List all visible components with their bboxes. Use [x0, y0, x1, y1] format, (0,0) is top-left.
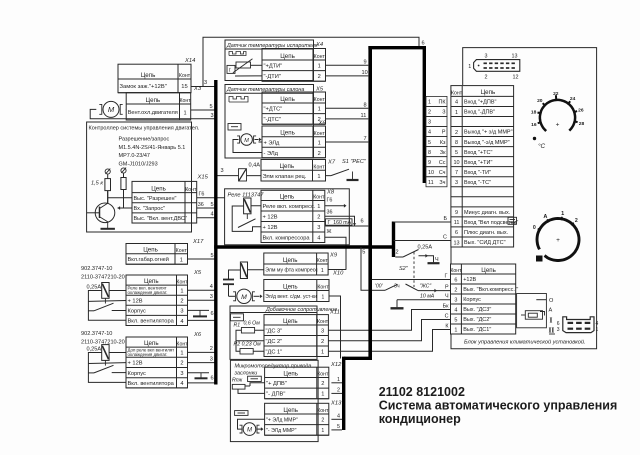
svg-text:Г: Г	[445, 273, 448, 279]
svg-text:Вход "-ДПВ": Вход "-ДПВ"	[464, 110, 495, 116]
svg-text:Вкл. вентилятора: Вкл. вентилятора	[128, 381, 175, 387]
svg-text:24: 24	[570, 96, 576, 102]
harness bundle middle vertical	[368, 46, 372, 360]
svg-text:Конт: Конт	[317, 408, 329, 414]
svg-text:X5: X5	[193, 270, 202, 276]
svg-text:Конт: Конт	[179, 73, 191, 79]
svg-text:X10: X10	[332, 271, 344, 277]
svg-text:охлаждения двигат.: охлаждения двигат.	[128, 352, 168, 357]
svg-text:0: 0	[533, 225, 536, 231]
svg-text:"- ДПВ": "- ДПВ"	[266, 392, 285, 398]
motor M1 вентилятор охлаждения двигателя	[103, 101, 119, 117]
svg-text:3: 3	[180, 309, 183, 315]
svg-text:1: 1	[454, 327, 457, 333]
wire Бк ДС3 to control unit	[328, 310, 450, 331]
svg-text:Цепь: Цепь	[283, 370, 298, 377]
svg-text:3: 3	[180, 371, 183, 377]
svg-text:"+ ЭЛд ММР": "+ ЭЛд ММР"	[266, 418, 298, 424]
svg-text:6: 6	[454, 277, 457, 283]
svg-text:21102 8121002: 21102 8121002	[379, 385, 465, 399]
svg-text:"ДС 1": "ДС 1"	[266, 349, 283, 355]
svg-text:°С: °С	[538, 142, 546, 150]
svg-text:22: 22	[553, 91, 559, 97]
svg-text:36: 36	[327, 209, 333, 215]
svg-text:Цепь: Цепь	[280, 96, 295, 103]
svg-text:1: 1	[318, 64, 321, 70]
svg-text:М: М	[244, 138, 249, 144]
svg-text:Выход "-э/д ММР": Выход "-э/д ММР"	[464, 140, 510, 146]
svg-text:1: 1	[321, 350, 324, 356]
svg-text:1: 1	[318, 140, 321, 146]
wire 5 X13 pin1 to harness	[331, 429, 342, 431]
svg-text:Зк: Зк	[440, 150, 446, 156]
svg-text:6: 6	[211, 376, 214, 382]
svg-text:ПК: ПК	[438, 100, 446, 106]
motor M4 микромоторедуктор	[243, 423, 256, 436]
wire С to Вых СИД ДТС	[394, 240, 451, 242]
svg-text:1: 1	[468, 64, 471, 70]
svg-text:Конт: Конт	[314, 131, 326, 137]
svg-text:0,25А: 0,25А	[418, 245, 433, 251]
svg-text:0,6 Ом: 0,6 Ом	[244, 321, 261, 327]
svg-text:9: 9	[455, 210, 458, 216]
svg-text:Конт: Конт	[185, 187, 197, 193]
svg-text:1: 1	[318, 107, 321, 113]
svg-text:2: 2	[485, 75, 488, 81]
variable-output symbol over R2	[121, 168, 126, 173]
svg-text:Разрешение/запрос: Разрешение/запрос	[119, 136, 170, 142]
svg-text:11: 11	[454, 220, 460, 226]
svg-text:7: 7	[455, 170, 458, 176]
wire С ДС2 to control unit	[328, 320, 450, 341]
svg-text:2: 2	[396, 250, 399, 256]
svg-text:Конт: Конт	[176, 279, 188, 285]
svg-text:Бк: Бк	[443, 303, 450, 309]
svg-text:Цепь: Цепь	[283, 407, 298, 414]
resistor R2 in ECU	[121, 178, 126, 190]
svg-text:2: 2	[321, 339, 324, 345]
svg-text:2: 2	[455, 130, 458, 136]
svg-text:13: 13	[453, 240, 459, 246]
svg-text:Цепь: Цепь	[481, 89, 496, 96]
svg-text:3: 3	[317, 225, 320, 231]
svg-text:3: 3	[204, 80, 207, 86]
wire motor M4 to X13	[258, 428, 262, 430]
svg-text:1: 1	[455, 110, 458, 116]
svg-text:Конт: Конт	[176, 248, 188, 254]
svg-text:2: 2	[318, 151, 321, 157]
svg-text:Вх. "Запрос": Вх. "Запрос"	[134, 206, 166, 212]
svg-text:Цепь: Цепь	[283, 283, 298, 290]
svg-text:Цепь: Цепь	[151, 185, 166, 192]
svg-text:Вход "-ТС": Вход "-ТС"	[464, 180, 491, 186]
svg-text:Цепь: Цепь	[280, 193, 295, 200]
temperature dial	[540, 100, 575, 131]
svg-text:7: 7	[364, 136, 367, 142]
ground of transistor emitter	[107, 227, 109, 229]
blower resistor icon in unit	[525, 311, 542, 320]
svg-text:16: 16	[531, 122, 537, 128]
svg-text:9: 9	[428, 160, 431, 166]
svg-text:4: 4	[211, 212, 214, 218]
svg-text:X13: X13	[330, 401, 342, 407]
svg-text:Цепь: Цепь	[283, 257, 298, 264]
svg-text:Микромоторедуктор привода: Микромоторедуктор привода	[235, 363, 312, 369]
harness bus horizontal (circuit 30)	[214, 245, 393, 248]
harness lower jog	[344, 357, 372, 360]
svg-text:Корпус: Корпус	[128, 371, 146, 377]
svg-text:1: 1	[321, 392, 324, 398]
svg-text:11: 11	[361, 113, 367, 119]
thermistor ДТИ symbol	[236, 62, 251, 68]
wire 7 X6 pin1 to harness	[326, 141, 369, 143]
svg-text:Вых. "ДС3": Вых. "ДС3"	[463, 307, 491, 313]
blower resistor icon	[231, 314, 244, 321]
svg-text:902.3747-10: 902.3747-10	[81, 331, 112, 337]
ground of X5 Корпус	[188, 309, 210, 311]
svg-text:3: 3	[557, 327, 560, 333]
svg-text:4: 4	[428, 130, 431, 136]
harness top horizontal	[368, 46, 426, 49]
svg-text:Реле вкл. компресс.: Реле вкл. компресс.	[263, 204, 316, 210]
wire sensor to X12	[245, 385, 250, 387]
svg-text:1: 1	[596, 327, 599, 333]
svg-text:Ж: Ж	[327, 229, 332, 235]
svg-text:"ДС 2": "ДС 2"	[266, 339, 283, 345]
svg-text:X8: X8	[326, 190, 335, 196]
svg-text:4: 4	[454, 307, 457, 313]
svg-text:1: 1	[321, 268, 324, 274]
fan positions box	[517, 294, 547, 328]
svg-text:Конт: Конт	[317, 372, 329, 378]
svg-text:4: 4	[180, 381, 183, 387]
svg-text:4: 4	[210, 284, 213, 290]
svg-text:"+ДТС": "+ДТС"	[264, 107, 283, 113]
svg-text:- ЭЛд: - ЭЛд	[264, 151, 279, 157]
svg-text:0,25А: 0,25А	[87, 285, 102, 291]
wire Г6 from X15 to relay 1113747	[197, 197, 225, 199]
svg-text:Замок заж."+12В": Замок заж."+12В"	[120, 84, 167, 90]
wire 10 X4 pin2 to harness	[326, 75, 369, 77]
svg-text:Конт: Конт	[180, 98, 192, 104]
svg-text:Р: Р	[442, 130, 446, 136]
ground of X6 Корпус	[188, 372, 210, 374]
svg-text:Цепь: Цепь	[146, 97, 161, 104]
svg-text:X12: X12	[330, 362, 342, 368]
svg-text:+: +	[556, 237, 560, 244]
relay K3 wiring	[232, 206, 252, 231]
svg-text:Зч: Зч	[439, 180, 445, 186]
svg-text:2: 2	[454, 287, 457, 293]
svg-text:+ 12В: + 12В	[263, 225, 278, 231]
svg-text:6: 6	[211, 311, 214, 317]
wire 5 from X17 to harness	[188, 258, 215, 260]
svg-text:3: 3	[210, 294, 213, 300]
salon sensor plug icon	[229, 97, 248, 103]
svg-text:Цепь: Цепь	[283, 318, 298, 325]
svg-text:1: 1	[317, 204, 320, 210]
control unit table 2	[451, 264, 516, 334]
svg-text:4: 4	[337, 413, 340, 419]
svg-text:10: 10	[428, 170, 434, 176]
relay K1 wiring	[109, 290, 126, 292]
wire X3 pin1 to harness	[191, 109, 215, 111]
svg-text:"- ЭЛд ММР": "- ЭЛд ММР"	[266, 428, 297, 434]
svg-text:Конт: Конт	[314, 97, 326, 103]
svg-text:Вых. "ДС1": Вых. "ДС1"	[463, 327, 491, 333]
svg-text:3: 3	[210, 356, 213, 362]
svg-text:GM-J1010/J293: GM-J1010/J293	[119, 161, 158, 167]
wire Ж X8 pin4 to compressor clutch	[325, 237, 346, 269]
svg-text:Конт: Конт	[313, 165, 325, 171]
control unit table 1	[451, 86, 514, 247]
svg-text:О: О	[549, 298, 554, 304]
svg-text:X17: X17	[192, 239, 204, 245]
svg-text:1: 1	[428, 100, 431, 106]
svg-text:МР7.0-23/47: МР7.0-23/47	[119, 153, 151, 159]
box Датчик температуры салона	[225, 85, 314, 159]
svg-text:3: 3	[221, 168, 224, 174]
svg-text:1: 1	[180, 351, 183, 357]
svg-text:Вых. "Вкл.компресс. ": Вых. "Вкл.компресс. "	[463, 287, 518, 293]
svg-text:2: 2	[428, 110, 431, 116]
ECU box Контроллер системы управления двигателем	[87, 122, 192, 232]
svg-text:1: 1	[337, 377, 340, 383]
svg-text:1: 1	[180, 257, 183, 263]
box Микромоторедуктор привода заслонки	[230, 360, 318, 441]
relay box Реле 1113747	[225, 189, 350, 245]
wire coil to X8 pin1	[251, 205, 261, 207]
svg-text:12: 12	[513, 75, 519, 81]
svg-text:Вход "Вкл подсветки": Вход "Вкл подсветки"	[464, 220, 518, 226]
svg-text:А: А	[549, 308, 553, 314]
svg-text:Цепь: Цепь	[280, 130, 295, 137]
wire 2 X6 row1 to harness	[188, 351, 215, 353]
svg-text:Цепь: Цепь	[279, 163, 294, 170]
svg-text:4: 4	[596, 321, 599, 327]
svg-text:2: 2	[317, 215, 320, 221]
svg-text:"-ДТС": "-ДТС"	[264, 117, 281, 123]
wire motor M3 to X10 with arrow	[254, 295, 260, 297]
svg-text:М: М	[241, 294, 247, 301]
svg-text:5: 5	[211, 202, 214, 208]
svg-text:1: 1	[561, 211, 564, 217]
svg-text:Конт: Конт	[451, 91, 463, 97]
wire X6 row4 to harness	[188, 382, 215, 384]
svg-text:2: 2	[318, 74, 321, 80]
svg-text:1,5 к: 1,5 к	[91, 181, 103, 187]
svg-text:Элм клапан рец.: Элм клапан рец.	[263, 174, 307, 180]
svg-text:+12В: +12В	[463, 277, 476, 283]
svg-text:М1.5.4N-2S/41-Январь 5.1: М1.5.4N-2S/41-Январь 5.1	[119, 145, 186, 151]
svg-text:Сч: Сч	[439, 170, 446, 176]
svg-text:С: С	[445, 313, 449, 319]
svg-text:Зч: Зч	[394, 284, 400, 290]
position sensor resistor	[232, 384, 245, 389]
wire motor M1 loop to harness (circuit 3)	[90, 109, 214, 118]
svg-text:5: 5	[210, 104, 213, 110]
relay K3 contact	[246, 214, 248, 219]
svg-text:Система автоматического управл: Система автоматического управления	[379, 399, 618, 413]
svg-text:3: 3	[211, 113, 214, 119]
wire motor M1 to X3	[125, 108, 127, 110]
svg-text:Г6: Г6	[199, 192, 205, 198]
wire X10 to lower harness	[329, 296, 341, 359]
relay K2 coil	[102, 345, 109, 361]
backlight icon at row 11	[508, 217, 517, 224]
svg-text:Ч: Ч	[445, 294, 449, 300]
svg-text:Б: Б	[444, 216, 448, 222]
harness right vertical	[423, 46, 426, 183]
svg-text:0,25А: 0,25А	[87, 347, 102, 353]
svg-text:Цепь: Цепь	[481, 267, 496, 274]
svg-text:2: 2	[210, 346, 213, 352]
svg-text:2: 2	[337, 387, 340, 393]
svg-text:+ 12В: + 12В	[263, 214, 278, 220]
switch chain to Вкл компрессора	[372, 289, 385, 291]
svg-text:X14: X14	[184, 58, 195, 64]
svg-text:10: 10	[362, 70, 368, 76]
svg-text:Ч: Ч	[435, 257, 439, 263]
svg-text:2: 2	[321, 381, 324, 387]
svg-text:9: 9	[364, 59, 367, 65]
svg-text:6: 6	[361, 219, 364, 225]
sensor plug icon	[229, 52, 246, 56]
svg-text:"-ДТИ": "-ДТИ"	[264, 74, 281, 80]
wire R2 to X15 Запрос with arrow	[124, 190, 133, 209]
svg-text:5: 5	[455, 150, 458, 156]
svg-text:8: 8	[428, 150, 431, 156]
output connector icon	[563, 317, 594, 333]
svg-text:охлаждения двигат.: охлаждения двигат.	[128, 290, 168, 295]
wire from X15 Вкл.вент.ДВС to harness	[197, 217, 215, 219]
diagnostic connector icon	[474, 60, 520, 72]
fan speed dial	[537, 219, 579, 261]
svg-text:+: +	[556, 122, 560, 129]
relay K3 coil	[244, 198, 251, 214]
svg-text:S2": S2"	[399, 266, 409, 272]
svg-text:Корпус: Корпус	[463, 297, 481, 303]
box Датчик температуры испарителя	[225, 40, 314, 81]
svg-text:Р: Р	[445, 284, 449, 290]
svg-text:X9: X9	[329, 253, 338, 259]
wire Г6 X8 pin1 right	[325, 205, 346, 207]
svg-text:Выс. "Разрешен": Выс. "Разрешен"	[134, 196, 177, 202]
wire 3 X5 row2 to harness	[188, 299, 215, 301]
wire motor M2 loop to X6 pin2	[233, 140, 262, 153]
wire 3 harness to fuse to X7	[218, 175, 239, 177]
svg-text:10: 10	[453, 160, 459, 166]
wire 36 X8 pin2	[325, 216, 355, 226]
svg-text:X3: X3	[193, 86, 202, 92]
svg-text:II: II	[549, 325, 555, 334]
wire Ч Корпус to ground	[397, 299, 451, 301]
svg-text:Цепь: Цепь	[141, 72, 156, 79]
svg-text:Блок управления климатической: Блок управления климатической установкой…	[464, 339, 586, 346]
svg-text:К: К	[445, 323, 449, 329]
svg-text:Конт: Конт	[314, 54, 326, 60]
svg-text:Сс: Сс	[439, 160, 446, 166]
svg-text:М: М	[247, 428, 252, 434]
wire 8 X5 pin1 to harness	[326, 107, 369, 109]
wire X5 row4 to harness	[188, 319, 215, 321]
relay K2 contact	[104, 360, 106, 365]
switch S2 0,25А with ground	[395, 256, 403, 258]
ground of S1	[347, 179, 359, 181]
svg-text:З: З	[442, 110, 445, 116]
svg-text:Г6: Г6	[327, 197, 333, 203]
svg-text:1: 1	[317, 174, 320, 180]
svg-text:Конт: Конт	[176, 341, 188, 347]
svg-text:'00': '00'	[375, 284, 384, 290]
wire thermistor to X4	[251, 64, 263, 66]
svg-text:Цепь: Цепь	[144, 340, 159, 347]
svg-text:3: 3	[454, 297, 457, 303]
relay K1 coil	[102, 283, 109, 299]
svg-text:2110-3747210-20: 2110-3747210-20	[81, 274, 125, 280]
wire Б to Вход Вкл подсветки	[394, 221, 451, 223]
climate control unit outline	[451, 48, 597, 349]
svg-text:6: 6	[455, 230, 458, 236]
svg-text:1: 1	[180, 288, 183, 294]
wire 1 X12 pin2 to harness	[331, 382, 342, 384]
svg-text:Вкл. вентилятора: Вкл. вентилятора	[128, 319, 175, 325]
svg-text:5: 5	[454, 317, 457, 323]
svg-text:Конт: Конт	[317, 319, 329, 325]
svg-text:X4: X4	[315, 42, 323, 48]
svg-text:3: 3	[455, 180, 458, 186]
svg-text:Вкл.габар.огней: Вкл.габар.огней	[128, 256, 169, 263]
svg-text:5: 5	[337, 424, 340, 430]
svg-text:3: 3	[321, 329, 324, 335]
wire 9 X4 pin1 to harness	[326, 64, 369, 66]
motor M2 вентилятор датчика салона	[241, 134, 253, 146]
position sensor plug icon	[248, 376, 262, 381]
wire К ДС1 to control unit	[328, 330, 450, 352]
svg-text:Эл/д вент. с/дм. уст-ки: Эл/д вент. с/дм. уст-ки	[265, 294, 317, 300]
svg-text:3: 3	[485, 54, 488, 60]
svg-text:20: 20	[537, 98, 543, 104]
svg-text:Вых. "СИД ДТС": Вых. "СИД ДТС"	[464, 240, 506, 246]
svg-text:0,4А: 0,4А	[249, 163, 261, 169]
wire 6 to harness	[325, 225, 369, 227]
svg-text:Вход "+ДПВ": Вход "+ДПВ"	[464, 100, 496, 106]
svg-text:8: 8	[455, 140, 458, 146]
wire 5 tap from bus	[361, 247, 368, 290]
svg-text:Конт: Конт	[317, 285, 329, 291]
svg-text:"ДС 3": "ДС 3"	[266, 328, 283, 334]
wire 2 X12 pin1 to harness	[331, 392, 342, 394]
svg-text:Вход "-ТИ": Вход "-ТИ"	[464, 170, 491, 176]
svg-text:Элм му фта компресс: Элм му фта компресс	[265, 268, 318, 274]
svg-text:Корпус: Корпус	[128, 309, 146, 315]
svg-text:Вкл. компрессора: Вкл. компрессора	[263, 235, 311, 241]
svg-text:Конт: Конт	[317, 258, 329, 264]
svg-text:+ 12В: + 12В	[128, 298, 143, 304]
svg-text:М: М	[108, 105, 115, 114]
svg-text:Выс. "Вкл. вент.ДВС": Выс. "Вкл. вент.ДВС"	[134, 216, 187, 222]
svg-text:X11: X11	[329, 310, 340, 316]
svg-text:Цепь: Цепь	[143, 247, 158, 254]
svg-text:Конт: Конт	[450, 268, 462, 274]
svg-text:заслонки: заслонки	[234, 370, 258, 376]
svg-text:10 мА: 10 мА	[420, 294, 435, 300]
box Добавочное сопротивление	[230, 306, 317, 359]
svg-text:"+ДТИ": "+ДТИ"	[264, 64, 283, 70]
svg-text:А: А	[543, 214, 547, 220]
svg-text:Плюс диагн. вых.: Плюс диагн. вых.	[464, 230, 509, 236]
harness stub vertical right	[392, 222, 395, 258]
